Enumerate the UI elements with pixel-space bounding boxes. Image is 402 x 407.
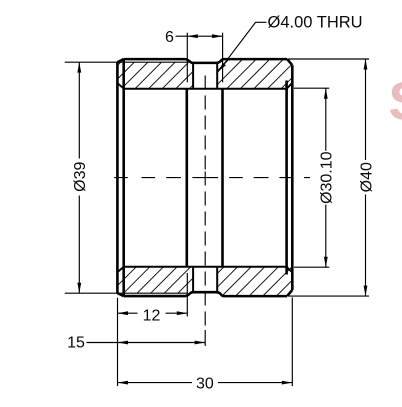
svg-text:12: 12 xyxy=(143,307,161,324)
svg-text:S: S xyxy=(389,72,402,132)
svg-text:15: 15 xyxy=(67,335,85,352)
svg-text:Ø39: Ø39 xyxy=(72,161,89,191)
svg-text:30: 30 xyxy=(196,375,214,392)
svg-text:Ø4.00 THRU: Ø4.00 THRU xyxy=(268,14,363,32)
svg-text:Ø30.10: Ø30.10 xyxy=(319,151,336,204)
svg-text:6: 6 xyxy=(165,29,174,46)
svg-text:Ø40: Ø40 xyxy=(358,162,375,192)
